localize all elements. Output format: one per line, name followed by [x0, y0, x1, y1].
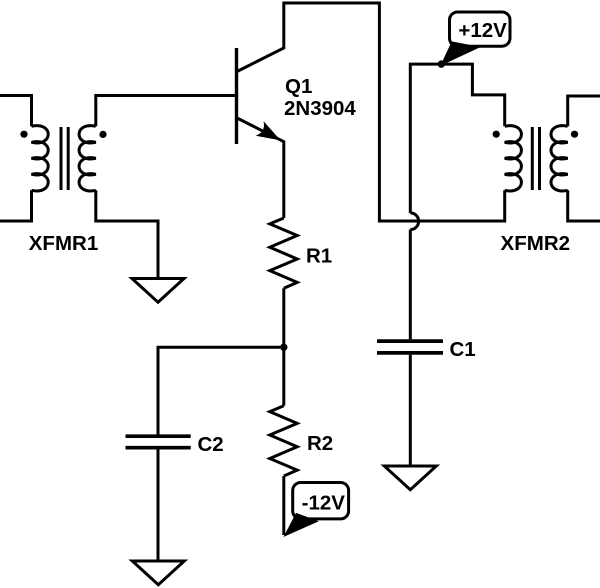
XFMR2 primary phase dot — [493, 131, 500, 138]
+12V callout box — [450, 12, 511, 46]
svg-text:-12V: -12V — [302, 492, 346, 515]
XFMR1 core — [61, 127, 68, 190]
-12V callout box — [293, 483, 349, 519]
ground below C1 — [384, 466, 436, 490]
wire C1 to ground — [409, 355, 412, 466]
XFMR1 secondary phase dot — [99, 131, 106, 138]
svg-text:2N3904: 2N3904 — [284, 97, 356, 120]
svg-text:R2: R2 — [307, 432, 333, 455]
svg-text:C1: C1 — [450, 338, 476, 361]
transistor Q1 emitter arrow — [257, 123, 279, 140]
wire R1 bottom through node to R2 top — [282, 288, 285, 406]
wire XFMR1 primary top lead — [0, 96, 32, 127]
ground below XFMR1 secondary — [132, 279, 184, 303]
ground below C2 — [132, 561, 184, 585]
wire XFMR1 primary bottom lead — [0, 190, 32, 221]
wire node to C2 — [158, 347, 284, 435]
XFMR2 core — [532, 127, 539, 190]
transistor Q1 collector lead — [237, 3, 505, 221]
wire XFMR1 secondary top to Q1 base — [96, 96, 235, 127]
wire hop over horizontal wire — [410, 213, 418, 230]
svg-text:XFMR2: XFMR2 — [501, 232, 570, 255]
resistor R2 — [270, 406, 297, 476]
svg-text:+12V: +12V — [458, 19, 507, 42]
node dot +12V tap — [438, 60, 445, 67]
svg-text:XFMR1: XFMR1 — [29, 232, 98, 255]
transistor Q1 emitter lead — [237, 118, 284, 218]
capacitor C2 — [126, 436, 191, 448]
svg-text:Q1: Q1 — [285, 75, 312, 98]
node junction dot — [280, 344, 287, 351]
wire +12V rail staircase to XFMR2 primary top — [410, 64, 504, 213]
XFMR2 secondary phase dot — [571, 131, 578, 138]
transformer XFMR1 primary winding — [32, 126, 49, 191]
wire C2 to ground — [157, 449, 160, 561]
wire R2 bottom to -12V flag — [282, 476, 285, 535]
wire XFMR1 secondary bottom to ground — [96, 190, 158, 278]
wire XFMR2 secondary top lead — [568, 96, 600, 126]
wire hop bottom to C1 — [409, 230, 412, 340]
XFMR1 primary phase dot — [20, 131, 27, 138]
svg-text:C2: C2 — [198, 433, 224, 456]
wire XFMR2 secondary bottom lead — [568, 190, 600, 221]
transistor Q1 base bar — [235, 48, 238, 144]
transformer XFMR2 primary winding — [505, 126, 522, 191]
transformer XFMR1 secondary winding — [79, 126, 96, 191]
resistor R1 — [270, 218, 297, 288]
capacitor C1 — [377, 341, 443, 353]
-12V callout tail — [285, 514, 318, 537]
transformer XFMR2 secondary winding — [551, 126, 568, 191]
svg-text:R1: R1 — [306, 245, 332, 268]
+12V callout tail — [441, 42, 479, 65]
